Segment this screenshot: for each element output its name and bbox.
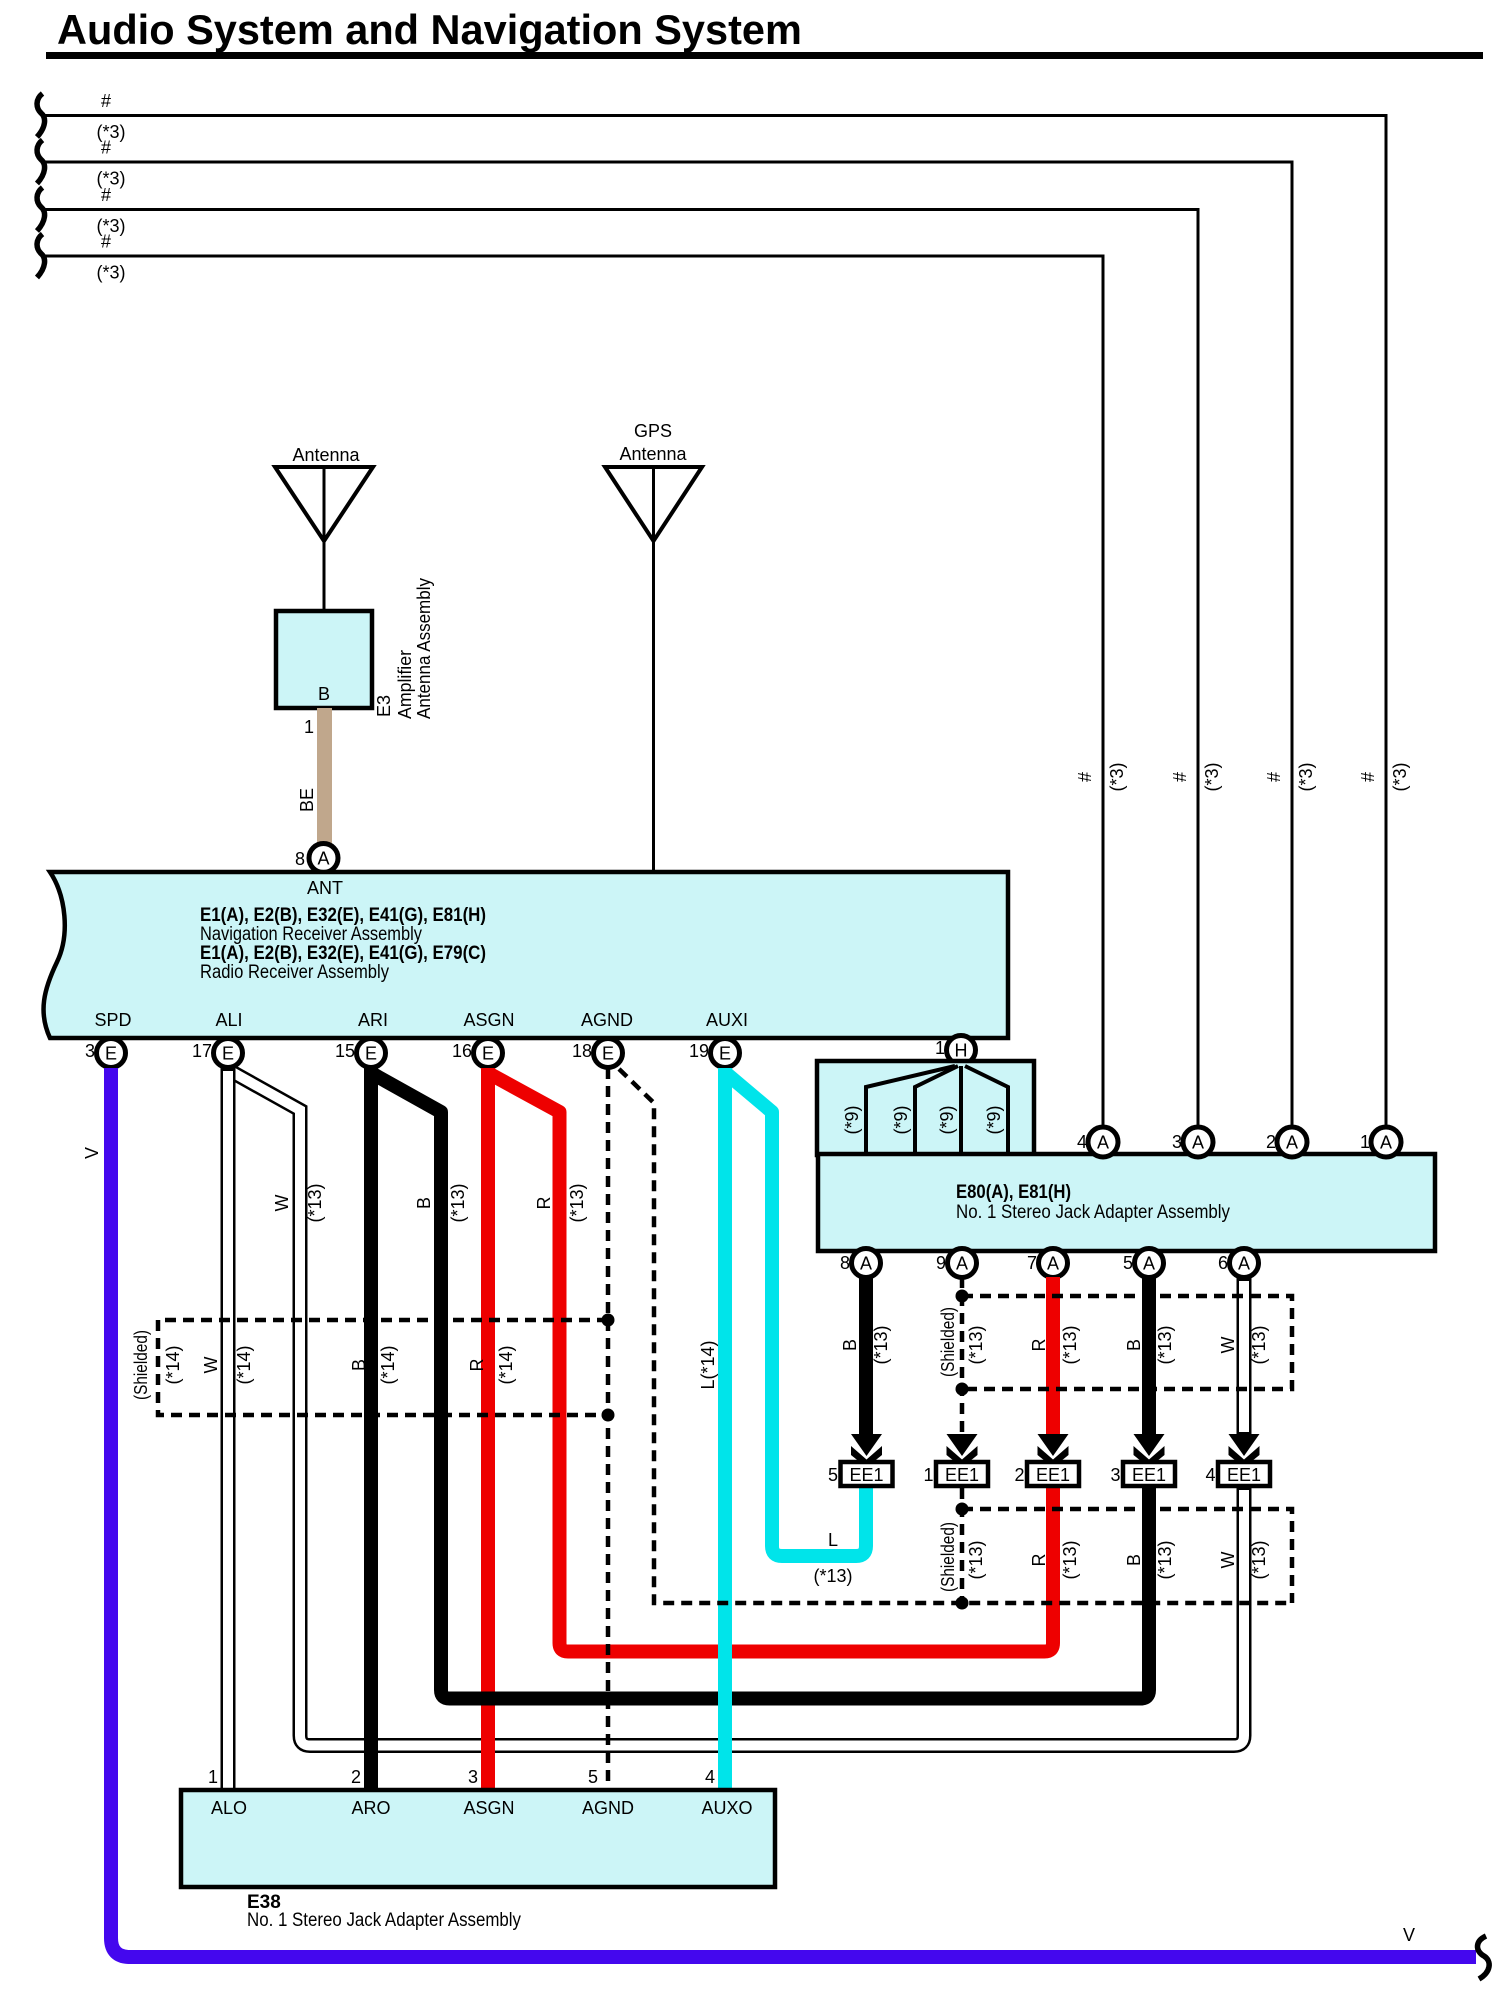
ground arrow into EE1 1 bbox=[947, 1434, 978, 1468]
svg-text:(*3): (*3) bbox=[1202, 762, 1222, 791]
junction dot at (608,1415) bbox=[602, 1409, 615, 1422]
svg-text:2: 2 bbox=[1266, 1132, 1276, 1152]
svg-text:V: V bbox=[82, 1147, 102, 1159]
svg-text:Amplifier: Amplifier bbox=[395, 650, 415, 719]
wire V (SPD) purple: pin 3 E down, along bottom, to right edge bbox=[82, 1068, 1476, 1957]
svg-text:E: E bbox=[222, 1044, 234, 1064]
svg-text:(*14): (*14) bbox=[496, 1345, 516, 1384]
pin 5 connector A (bottom of jack box) bbox=[1123, 1249, 1164, 1278]
svg-text:Antenna Assembly: Antenna Assembly bbox=[414, 578, 434, 719]
svg-text:#: # bbox=[101, 185, 111, 205]
pin 18 connector E (AGND) bbox=[572, 1039, 623, 1068]
wire R (*14) red: pin 16 E straight down to E38 pin 3 bbox=[467, 1068, 516, 1792]
svg-text:7: 7 bbox=[1027, 1253, 1037, 1273]
svg-text:B: B bbox=[349, 1359, 369, 1371]
svg-text:(*13): (*13) bbox=[1249, 1325, 1269, 1364]
wire # (*3) top run 3 to connector 3(A) bbox=[45, 185, 1198, 1128]
svg-text:(*13): (*13) bbox=[1060, 1325, 1080, 1364]
junction dot at (608,1320) bbox=[602, 1314, 615, 1327]
pin 9 connector A (bottom of jack box) bbox=[936, 1249, 977, 1278]
pin 7 connector A (bottom of jack box) bbox=[1027, 1249, 1068, 1278]
svg-text:E: E bbox=[602, 1044, 614, 1064]
svg-text:(*13): (*13) bbox=[871, 1325, 891, 1364]
ground arrow into EE1 5 bbox=[851, 1434, 882, 1468]
svg-text:EE1: EE1 bbox=[1227, 1465, 1261, 1485]
svg-text:ANT: ANT bbox=[307, 878, 343, 898]
ground connector EE1 (4) bbox=[1205, 1462, 1270, 1486]
svg-text:A: A bbox=[317, 849, 329, 869]
svg-text:AUXI: AUXI bbox=[706, 1010, 748, 1030]
svg-text:15: 15 bbox=[335, 1041, 355, 1061]
svg-text:A: A bbox=[1143, 1254, 1155, 1274]
No.1 stereo jack adapter assembly box E80/E81 bbox=[818, 1154, 1435, 1251]
pin 16 connector E (ASGN) bbox=[452, 1039, 503, 1068]
ground connector EE1 (3) bbox=[1110, 1462, 1175, 1486]
svg-text:5: 5 bbox=[588, 1767, 598, 1787]
svg-text:EE1: EE1 bbox=[1132, 1465, 1166, 1485]
svg-text:B: B bbox=[1124, 1554, 1144, 1566]
svg-text:B: B bbox=[414, 1197, 434, 1209]
lower right shield box (dashed) bbox=[938, 1509, 1292, 1603]
svg-text:GPS: GPS bbox=[634, 421, 672, 441]
fan-out box from connector H bbox=[817, 1061, 1034, 1155]
svg-text:#: # bbox=[1264, 772, 1284, 782]
svg-text:2: 2 bbox=[351, 1767, 361, 1787]
svg-text:E1(A), E2(B), E32(E), E41(G),: E1(A), E2(B), E32(E), E41(G), E81(H) bbox=[200, 905, 486, 926]
E38 stereo jack adapter box bbox=[181, 1790, 775, 1887]
pin 3 connector E (SPD) bbox=[85, 1039, 126, 1068]
svg-text:1: 1 bbox=[923, 1465, 933, 1485]
svg-text:R: R bbox=[1029, 1554, 1049, 1567]
svg-text:8: 8 bbox=[840, 1253, 850, 1273]
svg-text:BE: BE bbox=[297, 788, 317, 812]
svg-text:(Shielded): (Shielded) bbox=[131, 1330, 151, 1400]
svg-text:W: W bbox=[1218, 1552, 1238, 1569]
svg-text:(*3): (*3) bbox=[1296, 762, 1316, 791]
GPS antenna symbol bbox=[605, 421, 702, 541]
ground arrow into EE1 3 bbox=[1134, 1434, 1165, 1468]
svg-text:(*14): (*14) bbox=[234, 1345, 254, 1384]
svg-text:EE1: EE1 bbox=[1036, 1465, 1070, 1485]
wire continuation squiggle 2 bbox=[37, 140, 45, 184]
fan wire (*9) b bbox=[891, 1066, 958, 1154]
svg-text:A: A bbox=[860, 1254, 872, 1274]
svg-text:(*9): (*9) bbox=[937, 1105, 957, 1134]
svg-text:EE1: EE1 bbox=[849, 1465, 883, 1485]
svg-text:L: L bbox=[828, 1530, 838, 1550]
svg-text:Radio Receiver Assembly: Radio Receiver Assembly bbox=[200, 962, 389, 983]
svg-text:3: 3 bbox=[85, 1041, 95, 1061]
ground connector EE1 (2) bbox=[1014, 1462, 1079, 1486]
fan wire (*9) d bbox=[965, 1066, 1008, 1154]
svg-text:#: # bbox=[101, 232, 111, 252]
svg-text:Audio System and Navigation Sy: Audio System and Navigation System bbox=[57, 6, 802, 53]
svg-text:W: W bbox=[1218, 1337, 1238, 1354]
wire continuation squiggle at V right end bbox=[1477, 1936, 1489, 1979]
wire W (*13) from pin 6 A to EE1 4 bbox=[1218, 1276, 1269, 1438]
svg-text:W: W bbox=[272, 1195, 292, 1212]
svg-text:Navigation Receiver Assembly: Navigation Receiver Assembly bbox=[200, 924, 422, 945]
svg-text:#: # bbox=[1075, 772, 1095, 782]
pin 17 connector E (ALI) bbox=[192, 1039, 243, 1068]
svg-text:(*3): (*3) bbox=[96, 263, 125, 283]
wire L (*14) cyan: pin 19 E straight down to E38 pin 4 bbox=[698, 1068, 725, 1792]
svg-text:#: # bbox=[1170, 772, 1190, 782]
wire # (*3) top run 1 to connector 1(A) bbox=[45, 91, 1386, 1128]
svg-text:R: R bbox=[467, 1359, 487, 1372]
svg-text:A: A bbox=[1286, 1133, 1298, 1153]
fan wire (*9) c bbox=[937, 1066, 961, 1154]
svg-text:ARI: ARI bbox=[358, 1010, 388, 1030]
svg-text:4: 4 bbox=[1205, 1465, 1215, 1485]
svg-text:R: R bbox=[1029, 1339, 1049, 1352]
svg-text:4: 4 bbox=[705, 1767, 715, 1787]
svg-text:SPD: SPD bbox=[94, 1010, 131, 1030]
fan wire (*9) a bbox=[842, 1066, 955, 1154]
navigation / radio receiver assembly box bbox=[44, 872, 1008, 1038]
svg-text:L(*14): L(*14) bbox=[698, 1340, 718, 1389]
wire # (*3) top run 2 to connector 2(A) bbox=[45, 138, 1292, 1129]
antenna symbol bbox=[275, 445, 373, 611]
title bbox=[46, 6, 1483, 59]
svg-text:(*9): (*9) bbox=[891, 1105, 911, 1134]
svg-text:R: R bbox=[534, 1197, 554, 1210]
svg-text:E: E bbox=[719, 1044, 731, 1064]
pin 15 connector E (ARI) bbox=[335, 1039, 386, 1068]
svg-text:No. 1 Stereo Jack Adapter Asse: No. 1 Stereo Jack Adapter Assembly bbox=[956, 1202, 1230, 1223]
svg-text:A: A bbox=[1192, 1133, 1204, 1153]
ground connector EE1 (5) bbox=[828, 1462, 893, 1486]
pin 2 connector A (top of jack box) bbox=[1266, 1127, 1307, 1157]
svg-text:19: 19 bbox=[689, 1041, 709, 1061]
wire BE (antenna coax) bbox=[297, 708, 325, 846]
svg-text:5: 5 bbox=[828, 1465, 838, 1485]
wire B (*14) black: pin 15 E straight down to E38 pin 2 bbox=[349, 1068, 398, 1792]
svg-text:ASGN: ASGN bbox=[463, 1798, 514, 1818]
svg-text:#: # bbox=[101, 138, 111, 158]
wire shield drain branch dashed: jog right, down, lower shield box bottom bbox=[619, 1069, 1292, 1603]
svg-text:4: 4 bbox=[1077, 1132, 1087, 1152]
svg-text:(*13): (*13) bbox=[305, 1183, 325, 1222]
svg-text:(*13): (*13) bbox=[448, 1183, 468, 1222]
ground arrow into EE1 2 bbox=[1038, 1434, 1069, 1468]
upper right shield box (dashed) bbox=[938, 1296, 1292, 1389]
svg-text:(*13): (*13) bbox=[1155, 1540, 1175, 1579]
E38 pin numbers bbox=[208, 1767, 715, 1787]
svg-text:3: 3 bbox=[1172, 1132, 1182, 1152]
svg-text:(*13): (*13) bbox=[966, 1325, 986, 1364]
wire W (*13) white branch: jog right, down, along bottom, up to EE1 4 bbox=[232, 1072, 1244, 1746]
svg-text:(*13): (*13) bbox=[1060, 1540, 1080, 1579]
wire shield drain (AGND) dashed: pin 18 E straight down to E38 pin 5 bbox=[606, 1068, 611, 1792]
svg-text:(*9): (*9) bbox=[842, 1105, 862, 1134]
svg-text:6: 6 bbox=[1218, 1253, 1228, 1273]
svg-text:AGND: AGND bbox=[581, 1010, 633, 1030]
svg-text:(*14): (*14) bbox=[378, 1345, 398, 1384]
pin 3 connector A (top of jack box) bbox=[1172, 1127, 1213, 1157]
wire shield drain dashed below EE1 1 bbox=[960, 1488, 965, 1603]
svg-text:1: 1 bbox=[304, 717, 314, 737]
wire B (*13) from pin 5 A to EE1 3 bbox=[1124, 1277, 1175, 1438]
svg-text:3: 3 bbox=[1110, 1465, 1120, 1485]
wire B (*13) black branch: jog right, down, along bottom, up to EE1 3 bbox=[373, 1074, 1149, 1699]
svg-text:H: H bbox=[955, 1041, 968, 1061]
svg-text:Antenna: Antenna bbox=[619, 444, 687, 464]
svg-text:AUXO: AUXO bbox=[701, 1798, 752, 1818]
svg-text:Antenna: Antenna bbox=[292, 445, 360, 465]
wire W (*14) white: pin 17 E straight down to E38 pin 1 bbox=[201, 1066, 254, 1792]
wire B (*13) from pin 8 A to EE1 5 bbox=[840, 1277, 891, 1438]
pin 8 connector A (bottom of jack box) bbox=[840, 1249, 881, 1278]
svg-text:1: 1 bbox=[208, 1767, 218, 1787]
svg-text:AGND: AGND bbox=[582, 1798, 634, 1818]
svg-text:(*13): (*13) bbox=[813, 1566, 852, 1586]
svg-text:E: E bbox=[482, 1044, 494, 1064]
svg-text:(*13): (*13) bbox=[567, 1183, 587, 1222]
wire L (*13) cyan branch: jog right, down, right, up to EE1 5 bbox=[727, 1074, 866, 1586]
ground connector EE1 (1) bbox=[923, 1462, 988, 1486]
svg-text:ALI: ALI bbox=[215, 1010, 242, 1030]
svg-text:B: B bbox=[840, 1339, 860, 1351]
svg-text:2: 2 bbox=[1014, 1465, 1024, 1485]
wire GPS antenna to receiver bbox=[652, 467, 655, 870]
svg-text:8: 8 bbox=[295, 849, 305, 869]
svg-text:EE1: EE1 bbox=[945, 1465, 979, 1485]
pin 6 connector A (bottom of jack box) bbox=[1218, 1249, 1259, 1278]
E38 caption bbox=[247, 1892, 521, 1931]
wire R (*13) from pin 7 A to EE1 2 bbox=[1029, 1277, 1080, 1438]
svg-text:W: W bbox=[201, 1357, 221, 1374]
svg-text:(*3): (*3) bbox=[1107, 762, 1127, 791]
svg-text:(*14): (*14) bbox=[163, 1345, 183, 1384]
svg-text:(Shielded): (Shielded) bbox=[938, 1522, 958, 1592]
svg-text:E: E bbox=[365, 1044, 377, 1064]
pin 1 connector H bbox=[935, 1036, 976, 1065]
svg-text:(Shielded): (Shielded) bbox=[938, 1307, 958, 1377]
svg-text:A: A bbox=[1380, 1133, 1392, 1153]
junction dot at (962,1296) bbox=[956, 1290, 969, 1303]
svg-text:(*13): (*13) bbox=[1155, 1325, 1175, 1364]
pin 1 connector A (top of jack box) bbox=[1360, 1127, 1401, 1157]
svg-text:E80(A), E81(H): E80(A), E81(H) bbox=[956, 1182, 1071, 1203]
svg-text:B: B bbox=[318, 684, 330, 704]
svg-text:No. 1 Stereo Jack Adapter Asse: No. 1 Stereo Jack Adapter Assembly bbox=[247, 1910, 521, 1931]
svg-text:9: 9 bbox=[936, 1253, 946, 1273]
svg-text:(*9): (*9) bbox=[984, 1105, 1004, 1134]
pin 19 connector E (AUXI) bbox=[689, 1039, 740, 1068]
wire shield drain dashed from pin 9 A to EE1 1 bbox=[960, 1277, 965, 1436]
svg-text:#: # bbox=[101, 91, 111, 111]
wire continuation squiggle 3 bbox=[37, 188, 45, 232]
labels R B W in lower shield box bbox=[1029, 1540, 1269, 1579]
svg-text:ARO: ARO bbox=[351, 1798, 390, 1818]
svg-text:E1(A), E2(B), E32(E), E41(G),: E1(A), E2(B), E32(E), E41(G), E79(C) bbox=[200, 943, 486, 964]
straight white wire over branch joint bbox=[221, 1066, 236, 1200]
svg-text:A: A bbox=[956, 1254, 968, 1274]
left shield box (dashed) bbox=[131, 1320, 608, 1415]
svg-text:V: V bbox=[1403, 1925, 1415, 1945]
svg-text:(*13): (*13) bbox=[1249, 1540, 1269, 1579]
svg-text:18: 18 bbox=[572, 1041, 592, 1061]
wire R (*13) red branch: jog right, down, along bottom, up to EE1 2 bbox=[490, 1074, 1053, 1652]
ground arrow into EE1 4 bbox=[1229, 1434, 1260, 1468]
junction dot at (962,1509) bbox=[956, 1503, 969, 1516]
svg-text:A: A bbox=[1047, 1254, 1059, 1274]
svg-text:B: B bbox=[1124, 1339, 1144, 1351]
svg-text:ALO: ALO bbox=[211, 1798, 247, 1818]
svg-text:#: # bbox=[1358, 772, 1378, 782]
svg-text:E: E bbox=[105, 1044, 117, 1064]
connector A (ANT) on receiver bbox=[309, 844, 338, 873]
rotated # (*3) labels on vertical runs bbox=[1075, 762, 1410, 791]
svg-text:(*13): (*13) bbox=[966, 1540, 986, 1579]
wire # (*3) top run 4 to connector 4(A) bbox=[45, 232, 1103, 1129]
svg-text:ASGN: ASGN bbox=[463, 1010, 514, 1030]
svg-text:1: 1 bbox=[1360, 1132, 1370, 1152]
svg-text:1: 1 bbox=[935, 1038, 945, 1058]
pin 4 connector A (top of jack box) bbox=[1077, 1127, 1118, 1157]
wire continuation squiggle 1 bbox=[37, 94, 45, 138]
svg-text:A: A bbox=[1097, 1133, 1109, 1153]
wire continuation squiggle 4 bbox=[37, 234, 45, 278]
junction dot at (962,1389) bbox=[956, 1383, 969, 1396]
amplifier antenna assembly E3 box bbox=[276, 578, 434, 719]
svg-text:16: 16 bbox=[452, 1041, 472, 1061]
svg-text:E3: E3 bbox=[374, 695, 394, 717]
svg-text:17: 17 bbox=[192, 1041, 212, 1061]
svg-text:5: 5 bbox=[1123, 1253, 1133, 1273]
junction dot at (962,1603) bbox=[956, 1597, 969, 1610]
svg-text:(*3): (*3) bbox=[1390, 762, 1410, 791]
svg-text:3: 3 bbox=[468, 1767, 478, 1787]
svg-text:A: A bbox=[1238, 1254, 1250, 1274]
